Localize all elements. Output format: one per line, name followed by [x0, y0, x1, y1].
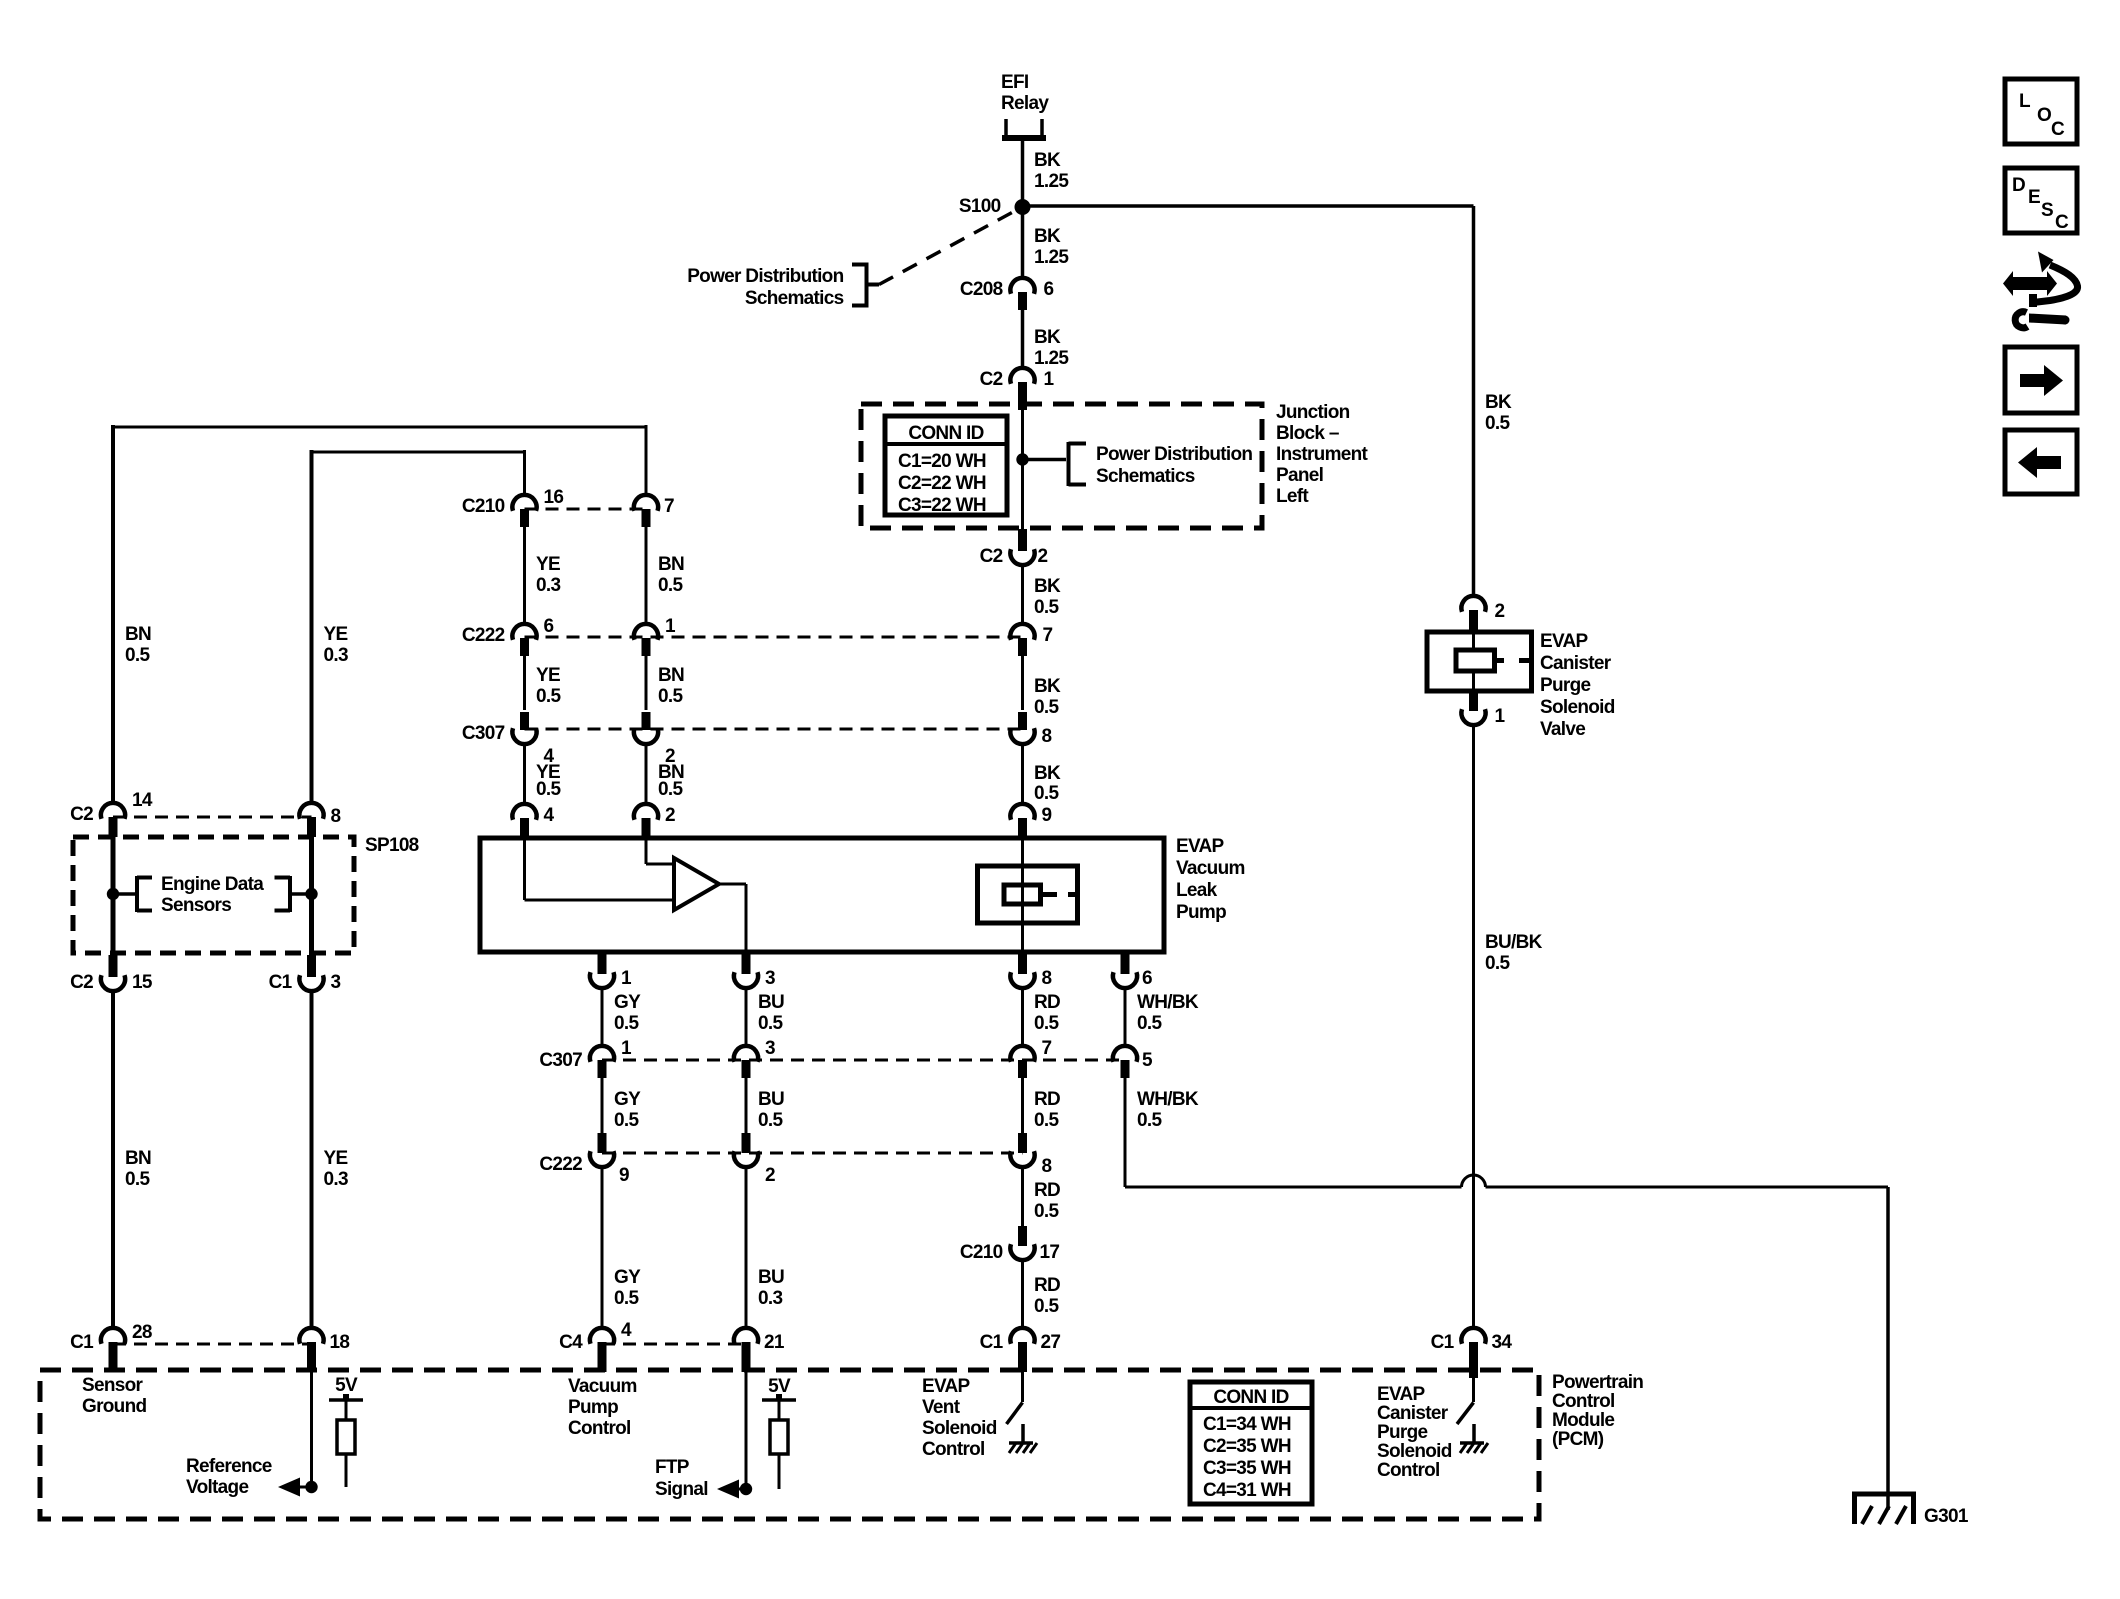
svg-text:1: 1 — [665, 616, 676, 637]
svg-text:Valve: Valve — [1540, 719, 1585, 740]
svg-text:Schematics: Schematics — [745, 288, 844, 309]
svg-text:3: 3 — [765, 1038, 775, 1059]
svg-text:28: 28 — [132, 1322, 152, 1343]
svg-text:WH/BK: WH/BK — [1137, 1089, 1199, 1110]
svg-text:BN: BN — [658, 665, 684, 686]
svg-text:0.5: 0.5 — [1137, 1013, 1162, 1034]
svg-text:18: 18 — [330, 1332, 350, 1353]
svg-text:0.3: 0.3 — [324, 1169, 348, 1190]
svg-text:BK: BK — [1485, 392, 1512, 413]
svg-text:C: C — [2051, 119, 2065, 140]
svg-text:21: 21 — [764, 1332, 785, 1353]
svg-text:4: 4 — [621, 1320, 632, 1341]
svg-text:C307: C307 — [462, 723, 505, 744]
svg-text:8: 8 — [1042, 968, 1052, 989]
svg-text:0.3: 0.3 — [324, 645, 348, 666]
svg-text:BU/BK: BU/BK — [1485, 932, 1543, 953]
svg-text:6: 6 — [1142, 968, 1152, 989]
svg-text:C2: C2 — [70, 804, 93, 825]
svg-text:0.5: 0.5 — [1034, 1110, 1059, 1131]
svg-text:RD: RD — [1034, 992, 1060, 1013]
svg-text:BK: BK — [1034, 150, 1061, 171]
svg-text:0.5: 0.5 — [536, 686, 561, 707]
svg-text:C208: C208 — [960, 279, 1003, 300]
svg-text:2: 2 — [1495, 601, 1505, 622]
svg-text:3: 3 — [765, 968, 775, 989]
svg-text:3: 3 — [331, 972, 341, 993]
svg-text:Relay: Relay — [1001, 93, 1049, 114]
svg-text:0.5: 0.5 — [614, 1013, 639, 1034]
svg-text:1.25: 1.25 — [1034, 348, 1069, 369]
svg-text:Control: Control — [1377, 1460, 1440, 1481]
svg-text:5V: 5V — [335, 1375, 358, 1396]
svg-text:RD: RD — [1034, 1180, 1060, 1201]
svg-text:Leak: Leak — [1176, 880, 1218, 901]
svg-text:4: 4 — [544, 805, 555, 826]
svg-text:0.5: 0.5 — [1034, 697, 1059, 718]
svg-text:0.5: 0.5 — [536, 779, 561, 800]
svg-text:C210: C210 — [960, 1242, 1003, 1263]
svg-text:0.5: 0.5 — [1137, 1110, 1162, 1131]
svg-text:C1=34 WH: C1=34 WH — [1203, 1414, 1291, 1435]
svg-text:Vacuum: Vacuum — [1176, 858, 1245, 879]
svg-text:WH/BK: WH/BK — [1137, 992, 1199, 1013]
svg-text:0.5: 0.5 — [125, 1169, 150, 1190]
svg-text:Schematics: Schematics — [1096, 466, 1195, 487]
svg-text:C2=35 WH: C2=35 WH — [1203, 1436, 1291, 1457]
svg-text:EVAP: EVAP — [1377, 1384, 1426, 1405]
svg-text:D: D — [2012, 175, 2025, 196]
svg-text:C307: C307 — [539, 1050, 582, 1071]
svg-text:0.5: 0.5 — [125, 645, 150, 666]
svg-text:C2: C2 — [980, 369, 1003, 390]
svg-text:C4: C4 — [559, 1332, 583, 1353]
svg-text:Powertrain: Powertrain — [1552, 1372, 1643, 1393]
svg-text:Module: Module — [1552, 1410, 1614, 1431]
svg-text:0.5: 0.5 — [758, 1013, 783, 1034]
svg-text:C1: C1 — [1431, 1332, 1455, 1353]
svg-text:1: 1 — [621, 968, 632, 989]
svg-text:0.5: 0.5 — [658, 779, 683, 800]
svg-text:0.3: 0.3 — [536, 575, 560, 596]
svg-text:BN: BN — [125, 624, 151, 645]
svg-text:Vent: Vent — [922, 1397, 961, 1418]
svg-text:7: 7 — [1042, 1038, 1052, 1059]
svg-text:1.25: 1.25 — [1034, 247, 1069, 268]
svg-text:EVAP: EVAP — [1540, 631, 1589, 652]
svg-text:Canister: Canister — [1540, 653, 1612, 674]
svg-text:0.5: 0.5 — [1034, 1201, 1059, 1222]
svg-text:C1: C1 — [980, 1332, 1004, 1353]
svg-text:8: 8 — [1042, 1156, 1052, 1177]
svg-text:GY: GY — [614, 992, 641, 1013]
svg-text:Solenoid: Solenoid — [922, 1418, 997, 1439]
svg-text:0.5: 0.5 — [1034, 1013, 1059, 1034]
svg-text:16: 16 — [544, 487, 564, 508]
svg-text:Solenoid: Solenoid — [1377, 1441, 1452, 1462]
svg-text:GY: GY — [614, 1089, 641, 1110]
svg-text:S: S — [2041, 200, 2053, 221]
svg-text:Canister: Canister — [1377, 1403, 1449, 1424]
svg-text:Junction: Junction — [1276, 402, 1350, 423]
svg-text:2: 2 — [1038, 546, 1048, 567]
svg-text:C: C — [2055, 212, 2069, 233]
svg-text:CONN ID: CONN ID — [1213, 1387, 1288, 1408]
svg-text:YE: YE — [324, 624, 348, 645]
svg-text:BU: BU — [758, 992, 784, 1013]
svg-text:2: 2 — [765, 1165, 775, 1186]
svg-text:Voltage: Voltage — [186, 1477, 248, 1498]
svg-text:Control: Control — [922, 1439, 985, 1460]
svg-text:Sensors: Sensors — [161, 895, 231, 916]
svg-text:0.5: 0.5 — [758, 1110, 783, 1131]
svg-text:Power Distribution: Power Distribution — [1096, 444, 1252, 465]
svg-text:0.5: 0.5 — [1034, 1296, 1059, 1317]
svg-text:Pump: Pump — [568, 1397, 618, 1418]
svg-text:0.5: 0.5 — [658, 575, 683, 596]
svg-text:YE: YE — [536, 554, 560, 575]
svg-text:5V: 5V — [768, 1376, 791, 1397]
svg-text:BK: BK — [1034, 763, 1061, 784]
svg-text:0.5: 0.5 — [658, 686, 683, 707]
svg-text:S100: S100 — [959, 196, 1001, 217]
svg-text:0.5: 0.5 — [614, 1110, 639, 1131]
svg-text:RD: RD — [1034, 1089, 1060, 1110]
svg-text:Purge: Purge — [1377, 1422, 1427, 1443]
svg-text:C3=35 WH: C3=35 WH — [1203, 1458, 1291, 1479]
svg-text:Vacuum: Vacuum — [568, 1376, 637, 1397]
svg-text:BN: BN — [125, 1148, 151, 1169]
svg-text:15: 15 — [132, 972, 153, 993]
svg-text:L: L — [2019, 91, 2031, 112]
svg-text:G301: G301 — [1924, 1506, 1969, 1527]
svg-text:C1=20 WH: C1=20 WH — [898, 451, 986, 472]
svg-text:Ground: Ground — [82, 1396, 146, 1417]
svg-text:(PCM): (PCM) — [1552, 1429, 1604, 1450]
svg-text:Pump: Pump — [1176, 902, 1226, 923]
svg-text:0.5: 0.5 — [1485, 413, 1510, 434]
svg-text:0.5: 0.5 — [1485, 953, 1510, 974]
svg-text:2: 2 — [665, 805, 675, 826]
svg-text:Purge: Purge — [1540, 675, 1590, 696]
svg-text:FTP: FTP — [655, 1457, 690, 1478]
svg-text:Sensor: Sensor — [82, 1375, 144, 1396]
svg-text:BK: BK — [1034, 676, 1061, 697]
svg-text:0.5: 0.5 — [1034, 783, 1059, 804]
svg-text:Block –: Block – — [1276, 423, 1339, 444]
svg-text:Left: Left — [1276, 486, 1309, 507]
svg-text:8: 8 — [1042, 726, 1052, 747]
svg-text:E: E — [2028, 187, 2040, 208]
svg-text:6: 6 — [1044, 279, 1054, 300]
svg-text:C2=22 WH: C2=22 WH — [898, 473, 986, 494]
svg-text:C222: C222 — [462, 625, 505, 646]
svg-text:Engine Data: Engine Data — [161, 874, 264, 895]
svg-text:27: 27 — [1041, 1332, 1061, 1353]
svg-text:9: 9 — [1042, 805, 1052, 826]
svg-text:6: 6 — [544, 616, 554, 637]
svg-text:BK: BK — [1034, 576, 1061, 597]
svg-text:C4=31 WH: C4=31 WH — [1203, 1480, 1291, 1501]
svg-text:EVAP: EVAP — [922, 1376, 971, 1397]
svg-text:17: 17 — [1040, 1242, 1060, 1263]
svg-text:34: 34 — [1492, 1332, 1513, 1353]
svg-text:1: 1 — [621, 1038, 632, 1059]
svg-text:Panel: Panel — [1276, 465, 1323, 486]
svg-text:5: 5 — [1142, 1050, 1153, 1071]
svg-text:CONN ID: CONN ID — [908, 423, 983, 444]
svg-text:Solenoid: Solenoid — [1540, 697, 1615, 718]
svg-text:BU: BU — [758, 1089, 784, 1110]
svg-text:1: 1 — [1044, 369, 1055, 390]
svg-text:BU: BU — [758, 1267, 784, 1288]
svg-text:7: 7 — [664, 496, 674, 517]
svg-text:9: 9 — [619, 1165, 629, 1186]
svg-text:EFI: EFI — [1001, 72, 1029, 93]
svg-text:Control: Control — [568, 1418, 631, 1439]
svg-text:Power Distribution: Power Distribution — [687, 266, 843, 287]
svg-text:C1: C1 — [269, 972, 293, 993]
svg-text:C3=22 WH: C3=22 WH — [898, 495, 986, 516]
svg-text:EVAP: EVAP — [1176, 836, 1225, 857]
svg-text:0.3: 0.3 — [758, 1288, 782, 1309]
svg-text:YE: YE — [536, 665, 560, 686]
svg-text:SP108: SP108 — [365, 835, 419, 856]
svg-text:C2: C2 — [70, 972, 93, 993]
svg-text:GY: GY — [614, 1267, 641, 1288]
svg-text:C222: C222 — [539, 1154, 582, 1175]
svg-text:7: 7 — [1043, 625, 1053, 646]
svg-text:YE: YE — [324, 1148, 348, 1169]
svg-text:Instrument: Instrument — [1276, 444, 1369, 465]
svg-text:BN: BN — [658, 554, 684, 575]
svg-text:Control: Control — [1552, 1391, 1615, 1412]
svg-text:8: 8 — [331, 806, 341, 827]
svg-text:BK: BK — [1034, 226, 1061, 247]
svg-text:C2: C2 — [980, 546, 1003, 567]
svg-text:RD: RD — [1034, 1275, 1060, 1296]
svg-text:C210: C210 — [462, 496, 505, 517]
svg-text:14: 14 — [132, 790, 153, 811]
svg-text:0.5: 0.5 — [614, 1288, 639, 1309]
svg-text:BK: BK — [1034, 327, 1061, 348]
svg-text:C1: C1 — [70, 1332, 94, 1353]
svg-text:O: O — [2037, 105, 2051, 126]
svg-text:0.5: 0.5 — [1034, 597, 1059, 618]
svg-text:Signal: Signal — [655, 1479, 708, 1500]
svg-text:1.25: 1.25 — [1034, 171, 1069, 192]
svg-text:1: 1 — [1495, 706, 1506, 727]
svg-text:Reference: Reference — [186, 1456, 272, 1477]
